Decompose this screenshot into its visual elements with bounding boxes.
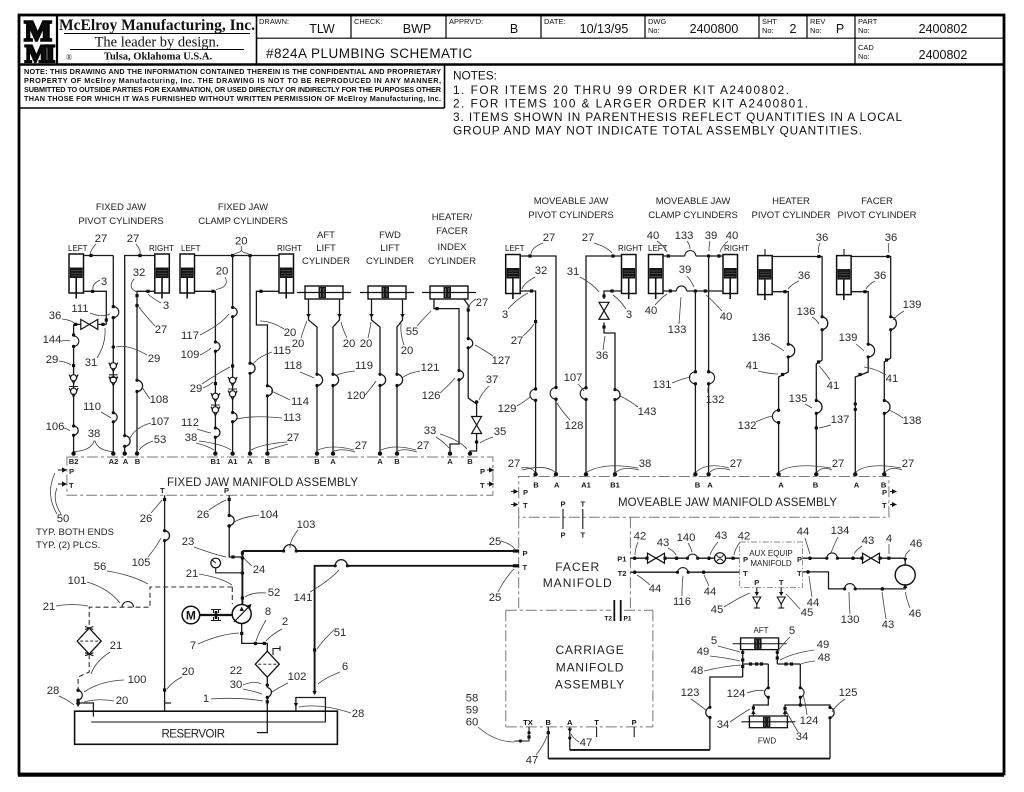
wire mv pivot RIGHT top to A1 xyxy=(586,256,622,474)
cylinder mv pivot RIGHT xyxy=(622,255,637,300)
svg-text:SUBMITTED TO OUTSIDE PARTIES F: SUBMITTED TO OUTSIDE PARTIES FOR EXAMINA… xyxy=(24,85,442,94)
cylinder facer pivot xyxy=(837,256,852,301)
svg-text:T: T xyxy=(779,578,784,587)
svg-text:B: B xyxy=(265,457,271,466)
wire AFT left port down xyxy=(742,650,744,677)
svg-text:GROUP AND MAY NOT INDICATE TOT: GROUP AND MAY NOT INDICATE TOTAL ASSEMBL… xyxy=(453,124,862,138)
svg-text:125: 125 xyxy=(839,687,858,699)
svg-text:A: A xyxy=(567,718,573,727)
svg-text:129: 129 xyxy=(498,403,517,415)
svg-text:AUX EQUIP: AUX EQUIP xyxy=(749,549,793,558)
svg-text:MANIFOLD: MANIFOLD xyxy=(556,661,624,675)
svg-text:33: 33 xyxy=(424,425,437,437)
aux motor circle xyxy=(895,565,915,585)
svg-text:44: 44 xyxy=(797,526,810,538)
wire clamp RIGHT bottom to B xyxy=(256,291,279,452)
svg-text:INDEX: INDEX xyxy=(437,242,467,253)
svg-text:128: 128 xyxy=(565,420,584,432)
gate valve 43 aux xyxy=(863,553,880,563)
hose arc 116 xyxy=(678,568,689,573)
svg-text:DATE:: DATE: xyxy=(544,17,566,26)
svg-text:T: T xyxy=(480,481,485,490)
svg-text:FWD: FWD xyxy=(758,737,776,746)
svg-text:21: 21 xyxy=(110,640,123,652)
svg-text:TLW: TLW xyxy=(309,22,335,36)
field labels row1 xyxy=(259,17,878,61)
reservoir xyxy=(75,711,338,744)
svg-text:3: 3 xyxy=(101,276,107,288)
svg-text:20: 20 xyxy=(360,338,373,350)
svg-text:27: 27 xyxy=(127,233,140,245)
svg-text:29: 29 xyxy=(190,383,203,395)
svg-text:27: 27 xyxy=(355,440,368,452)
svg-text:2400802: 2400802 xyxy=(919,48,968,62)
relief valve T xyxy=(777,597,785,608)
hose arc 115 on A clamp xyxy=(250,363,255,373)
svg-text:LEFT: LEFT xyxy=(68,244,88,253)
svg-text:AFT: AFT xyxy=(317,230,335,241)
svg-text:140: 140 xyxy=(677,532,696,544)
svg-text:A: A xyxy=(330,457,336,466)
svg-text:115: 115 xyxy=(273,345,291,357)
svg-text:107: 107 xyxy=(564,372,583,384)
svg-text:CYLINDER: CYLINDER xyxy=(302,256,350,267)
hose arc on FWD B xyxy=(397,374,403,385)
hose arc 110 on A2 xyxy=(113,413,117,422)
svg-text:T2: T2 xyxy=(604,616,612,623)
svg-text:P: P xyxy=(797,555,802,564)
svg-text:MOVEABLE JAW MANIFOLD ASSEM: MOVEABLE JAW MANIFOLD ASSEMBLY xyxy=(618,497,837,509)
svg-text:27: 27 xyxy=(287,432,300,444)
svg-text:107: 107 xyxy=(151,416,170,428)
svg-text:2. FOR ITEMS 100 & LARGER ORDE: 2. FOR ITEMS 100 & LARGER ORDER KIT A240… xyxy=(453,97,808,111)
svg-text:T: T xyxy=(743,569,748,578)
svg-text:RIGHT: RIGHT xyxy=(149,244,174,253)
svg-text:ASSEMBLY: ASSEMBLY xyxy=(555,678,625,692)
svg-text:No:: No: xyxy=(810,26,822,35)
svg-text:LIFT: LIFT xyxy=(316,243,336,254)
wire mv pivot RIGHT bottom with valve to B1 xyxy=(604,291,622,474)
case drain dashed xyxy=(89,587,232,628)
svg-text:31: 31 xyxy=(567,266,580,278)
svg-text:6: 6 xyxy=(342,661,348,673)
svg-text:LEFT: LEFT xyxy=(181,244,201,253)
svg-text:132: 132 xyxy=(738,420,757,432)
svg-text:REV: REV xyxy=(810,17,825,26)
svg-text:105: 105 xyxy=(132,557,151,569)
cylinder AFT lift xyxy=(297,286,351,299)
cylinder heater pivot xyxy=(758,256,773,301)
svg-text:7: 7 xyxy=(190,640,196,652)
svg-text:59: 59 xyxy=(466,705,479,717)
wire T2 line xyxy=(630,571,739,573)
svg-text:27: 27 xyxy=(832,458,845,470)
svg-text:T: T xyxy=(594,718,599,727)
svg-text:PART: PART xyxy=(858,17,878,26)
svg-text:38: 38 xyxy=(185,432,198,444)
svg-text:126: 126 xyxy=(422,390,441,402)
svg-text:38: 38 xyxy=(639,458,652,470)
svg-text:PIVOT CYLINDERS: PIVOT CYLINDERS xyxy=(78,216,163,227)
svg-text:44: 44 xyxy=(807,597,820,609)
svg-text:53: 53 xyxy=(154,434,167,446)
svg-text:BWP: BWP xyxy=(403,22,431,36)
svg-text:CARRIAGE: CARRIAGE xyxy=(555,643,624,657)
svg-text:PIVOT CYLINDER: PIVOT CYLINDER xyxy=(751,210,830,221)
jump 134 xyxy=(827,553,838,558)
svg-text:29: 29 xyxy=(46,354,59,366)
wire pivot RIGHT top port to A line xyxy=(125,256,155,453)
svg-text:2: 2 xyxy=(790,22,797,36)
svg-text:37: 37 xyxy=(486,374,499,386)
P stub open xyxy=(633,727,635,737)
svg-text:PROPERTY OF McElroy Manufactur: PROPERTY OF McElroy Manufacturing, Inc. … xyxy=(24,76,441,85)
svg-text:42: 42 xyxy=(634,531,647,543)
svg-text:A: A xyxy=(377,457,383,466)
hose arc 143 on B1 xyxy=(615,390,620,400)
wire mv clamp A vertical xyxy=(708,256,710,474)
svg-text:32: 32 xyxy=(133,267,146,279)
cylinder fixed pivot LEFT xyxy=(69,254,84,299)
svg-text:136: 136 xyxy=(752,332,771,344)
svg-text:27: 27 xyxy=(95,233,108,245)
svg-text:DRAWN:: DRAWN: xyxy=(259,17,289,26)
svg-text:127: 127 xyxy=(492,355,511,367)
svg-text:P: P xyxy=(632,718,637,727)
electric motor xyxy=(182,606,200,624)
wire mv clamp bottom line xyxy=(663,290,723,292)
filter outlet into tank xyxy=(257,677,267,732)
svg-text:4: 4 xyxy=(886,533,892,545)
jump 128 on A xyxy=(550,388,556,400)
svg-text:49: 49 xyxy=(697,646,710,658)
P T ports left edge of fixed manifold xyxy=(58,470,65,484)
hose arc 112 on B1 xyxy=(215,428,220,437)
svg-text:117: 117 xyxy=(181,330,199,342)
svg-text:130: 130 xyxy=(841,614,860,626)
wire aux P out xyxy=(803,558,906,564)
svg-text:144: 144 xyxy=(43,334,62,346)
wire FWD right port and outer junction xyxy=(785,705,830,759)
hose arc 130 xyxy=(845,584,856,589)
svg-text:48: 48 xyxy=(818,652,831,664)
svg-text:CAD: CAD xyxy=(858,43,874,52)
svg-text:T: T xyxy=(160,486,165,495)
hose arc 139 on B xyxy=(891,317,897,330)
svg-text:123: 123 xyxy=(681,687,700,699)
svg-text:Tulsa, Oklahoma U.S.A.: Tulsa, Oklahoma U.S.A. xyxy=(104,52,213,63)
svg-text:CYLINDER: CYLINDER xyxy=(428,256,476,267)
wire facer pivot bottom to A xyxy=(851,292,868,474)
wire A clamp vertical xyxy=(249,256,251,453)
svg-text:A: A xyxy=(447,457,453,466)
svg-text:55: 55 xyxy=(406,326,419,338)
MMI logo xyxy=(24,16,54,69)
svg-text:29: 29 xyxy=(148,353,161,365)
svg-text:36: 36 xyxy=(874,270,887,282)
svg-text:®: ® xyxy=(66,53,72,62)
svg-text:3: 3 xyxy=(163,300,169,312)
wire pivot LEFT top port to A2 line xyxy=(84,255,114,257)
return into tank xyxy=(296,698,326,723)
svg-text:RESERVOIR: RESERVOIR xyxy=(162,729,226,741)
carriage manifold assembly box xyxy=(506,610,653,727)
cylinder fixed clamp RIGHT xyxy=(279,254,294,299)
wire AFT left port to B xyxy=(309,299,318,452)
svg-text:TX: TX xyxy=(523,718,533,727)
P T ports right edge mv manifold xyxy=(890,492,897,505)
jump 129 on B xyxy=(530,389,536,400)
svg-text:T: T xyxy=(882,501,887,510)
cylinder fixed pivot RIGHT xyxy=(155,254,170,299)
svg-text:38: 38 xyxy=(88,428,101,440)
svg-text:23: 23 xyxy=(182,536,195,548)
hose arc 104 xyxy=(229,516,234,526)
svg-text:43: 43 xyxy=(882,619,895,631)
wire inner left riser to FWD left port xyxy=(753,664,768,716)
aux P and T bottom stubs with relief valves xyxy=(757,588,781,595)
wire inner right riser xyxy=(799,664,801,705)
hose arc 125 xyxy=(830,708,834,718)
svg-text:36: 36 xyxy=(816,232,829,244)
svg-text:20: 20 xyxy=(292,338,305,350)
svg-text:P: P xyxy=(523,549,528,558)
wire mv clamp top line xyxy=(663,255,723,257)
svg-text:60: 60 xyxy=(466,717,479,729)
moveable jaw manifold assembly box xyxy=(519,477,889,518)
notes list xyxy=(453,69,902,138)
svg-text:45: 45 xyxy=(711,604,724,616)
cylinder carriage FWD xyxy=(741,716,795,728)
wire mv pivot LEFT bottom to B xyxy=(520,291,535,474)
svg-text:MANIFOLD: MANIFOLD xyxy=(543,576,613,590)
carriage bottom ports TX B A T P xyxy=(523,718,637,727)
wire AFT right port down xyxy=(776,650,778,664)
svg-text:138: 138 xyxy=(903,415,922,427)
svg-text:36: 36 xyxy=(885,232,898,244)
svg-text:20: 20 xyxy=(216,266,229,278)
port labels mv manifold xyxy=(533,481,887,490)
svg-text:56: 56 xyxy=(94,561,107,573)
hose arc 136 on B xyxy=(822,317,828,330)
pump pressure vertical xyxy=(241,551,243,605)
wire AFT left horizontal to inner riser xyxy=(743,663,769,665)
svg-text:TYP. BOTH ENDS: TYP. BOTH ENDS xyxy=(36,527,114,538)
svg-text:133: 133 xyxy=(675,230,694,242)
svg-text:No:: No: xyxy=(762,26,774,35)
svg-text:47: 47 xyxy=(526,755,539,767)
wire AFT right port to A xyxy=(333,299,340,452)
svg-text:27: 27 xyxy=(155,324,168,336)
svg-text:B: B xyxy=(546,718,552,727)
svg-text:NOTE: THIS DRAWING AND THE INF: NOTE: THIS DRAWING AND THE INFORMATION C… xyxy=(24,67,441,76)
svg-text:P: P xyxy=(743,555,748,564)
wire FWD left port to A xyxy=(372,299,381,452)
svg-text:P1: P1 xyxy=(617,555,627,564)
wire A2 vertical xyxy=(112,256,114,453)
svg-text:32: 32 xyxy=(535,265,548,277)
svg-text:P: P xyxy=(69,467,74,476)
svg-text:51: 51 xyxy=(334,627,347,639)
svg-text:2400800: 2400800 xyxy=(690,22,739,36)
svg-text:B1: B1 xyxy=(610,481,620,490)
svg-text:The leader by design.: The leader by design. xyxy=(95,35,220,51)
svg-text:120: 120 xyxy=(347,390,366,402)
svg-text:T: T xyxy=(523,563,528,572)
svg-text:39: 39 xyxy=(705,230,718,242)
svg-text:APPRV'D:: APPRV'D: xyxy=(449,17,483,26)
svg-text:36: 36 xyxy=(798,270,811,282)
wire mv clamp B vertical xyxy=(694,291,696,474)
svg-text:No:: No: xyxy=(858,26,870,35)
svg-text:40: 40 xyxy=(726,230,739,242)
hose arc 139 on A xyxy=(868,344,874,357)
svg-text:T: T xyxy=(523,501,528,510)
svg-text:124: 124 xyxy=(800,715,819,727)
svg-text:B: B xyxy=(314,457,320,466)
svg-text:No:: No: xyxy=(858,52,870,61)
svg-text:42: 42 xyxy=(738,531,751,543)
jump 131 on B xyxy=(689,372,695,384)
svg-text:27: 27 xyxy=(508,458,521,470)
svg-text:20: 20 xyxy=(343,338,356,350)
cylinder FWD lift xyxy=(360,286,414,299)
relief valve P xyxy=(753,597,761,608)
svg-text:44: 44 xyxy=(704,586,717,598)
svg-text:A2: A2 xyxy=(109,457,119,466)
svg-text:46: 46 xyxy=(910,538,923,550)
cylinder carriage AFT xyxy=(733,638,787,650)
svg-text:112: 112 xyxy=(181,417,199,429)
hydraulic pump xyxy=(232,605,251,624)
svg-text:118: 118 xyxy=(284,360,302,372)
jump 107 on A1 xyxy=(580,388,586,400)
svg-text:40: 40 xyxy=(645,305,658,317)
hose arc 123 xyxy=(706,707,710,717)
svg-text:116: 116 xyxy=(673,596,691,608)
wire P1 line with valve xyxy=(630,557,739,559)
svg-text:FIXED JAW: FIXED JAW xyxy=(96,202,146,213)
svg-text:132: 132 xyxy=(706,394,725,406)
cylinder heater/facer index xyxy=(422,286,476,299)
hose arc on FWD A xyxy=(380,374,386,385)
svg-text:20: 20 xyxy=(116,695,129,707)
svg-text:40: 40 xyxy=(720,311,733,323)
hose arc 135 on B xyxy=(816,401,822,414)
svg-text:27: 27 xyxy=(902,458,915,470)
field values xyxy=(309,22,967,62)
svg-text:34: 34 xyxy=(717,719,730,731)
svg-text:P: P xyxy=(560,500,565,509)
fixed jaw manifold assembly box xyxy=(67,457,493,495)
svg-text:5: 5 xyxy=(711,635,717,647)
check valve seat bars xyxy=(69,387,78,390)
svg-text:P: P xyxy=(480,467,485,476)
svg-text:A1: A1 xyxy=(228,457,238,466)
hose arc on HF A xyxy=(459,371,464,380)
svg-text:P: P xyxy=(523,488,528,497)
svg-text:39: 39 xyxy=(679,264,692,276)
svg-text:MANIFOLD: MANIFOLD xyxy=(750,559,792,568)
svg-text:A: A xyxy=(707,481,713,490)
svg-text:T: T xyxy=(69,481,74,490)
svg-text:27: 27 xyxy=(476,297,489,309)
jump 144 on B2 xyxy=(74,336,79,346)
hose arc 109 on B1 xyxy=(215,342,220,351)
P T stubs to facer manifold xyxy=(563,509,583,529)
svg-text:A: A xyxy=(554,481,560,490)
suction strainer xyxy=(77,628,101,654)
cylinder fixed clamp LEFT xyxy=(180,254,195,299)
svg-text:B: B xyxy=(135,457,141,466)
wire AFT right horizontal xyxy=(777,663,800,665)
check valve on B2 upper xyxy=(69,375,78,384)
svg-text:PIVOT CYLINDER: PIVOT CYLINDER xyxy=(837,210,916,221)
svg-text:B: B xyxy=(533,481,539,490)
svg-text:CHECK:: CHECK: xyxy=(354,17,382,26)
needle valve 31 xyxy=(599,302,609,319)
bottom thick border xyxy=(18,774,1004,777)
svg-text:SHT: SHT xyxy=(762,17,777,26)
aux equip manifold box xyxy=(740,542,803,588)
svg-text:A: A xyxy=(247,457,253,466)
svg-text:B: B xyxy=(695,481,701,490)
svg-text:FACER: FACER xyxy=(436,226,468,237)
svg-text:40: 40 xyxy=(647,230,660,242)
svg-text:31: 31 xyxy=(85,357,98,369)
hose arc on drain dashed xyxy=(122,602,133,608)
logo divider xyxy=(56,15,58,64)
hose arc 108 on B xyxy=(137,380,143,391)
svg-text:30: 30 xyxy=(230,679,243,691)
svg-text:FWD: FWD xyxy=(379,230,401,241)
wire clamp top manifold line xyxy=(195,255,280,257)
svg-text:27: 27 xyxy=(511,335,524,347)
svg-text:109: 109 xyxy=(181,349,200,361)
wire aux T return xyxy=(803,572,906,589)
hose arc 106 on B2 xyxy=(74,426,79,435)
svg-text:104: 104 xyxy=(260,509,279,521)
svg-text:20: 20 xyxy=(401,345,414,357)
svg-text:134: 134 xyxy=(831,525,850,537)
svg-text:PIVOT CYLINDERS: PIVOT CYLINDERS xyxy=(528,210,613,221)
wire heater pivot bottom to A xyxy=(773,292,789,474)
svg-text:THAN THOSE FOR WHICH IT WAS FU: THAN THOSE FOR WHICH IT WAS FURNISHED WI… xyxy=(24,94,441,103)
svg-text:P: P xyxy=(224,486,229,495)
svg-text:P: P xyxy=(882,488,887,497)
svg-text:M: M xyxy=(186,609,196,623)
svg-text:41: 41 xyxy=(746,360,759,372)
pressure supply line to facer manifold xyxy=(242,550,518,552)
svg-text:No:: No: xyxy=(648,26,660,35)
svg-text:43: 43 xyxy=(862,535,875,547)
svg-text:131: 131 xyxy=(653,379,672,391)
wire clamp LEFT bottom to B1 xyxy=(195,291,216,452)
pressure filter xyxy=(255,651,279,677)
svg-text:8: 8 xyxy=(265,606,271,618)
tank return from T manifold line xyxy=(315,566,519,694)
svg-text:FACER: FACER xyxy=(555,560,600,574)
hose arc 107 on A xyxy=(125,436,130,447)
valve line 111 xyxy=(74,323,107,325)
svg-text:141: 141 xyxy=(294,592,313,604)
svg-text:21: 21 xyxy=(186,568,199,580)
svg-text:113: 113 xyxy=(283,412,301,424)
legal note box xyxy=(444,64,446,108)
hose arc 100 xyxy=(78,690,82,700)
wire left outer to bottom line xyxy=(710,677,743,750)
svg-text:135: 135 xyxy=(789,393,808,405)
